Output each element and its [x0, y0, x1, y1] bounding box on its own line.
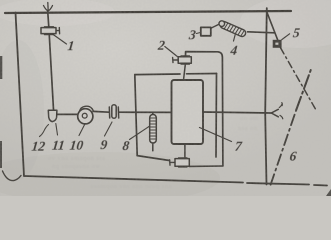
leader to label 5	[282, 34, 290, 40]
leader to label 3	[196, 32, 200, 33]
spray flicks	[279, 103, 283, 119]
wire: box3 to spring	[211, 24, 220, 28]
wire: spring to wall	[248, 32, 274, 33]
nozzle	[271, 109, 278, 117]
leader to label 10	[79, 125, 85, 136]
anchor hatch at top of supply pipe	[44, 3, 53, 12]
leader to label 7	[200, 128, 232, 142]
pulley box 5	[273, 40, 282, 48]
coupling 9	[109, 105, 118, 118]
spring 4	[219, 20, 247, 37]
leader to label 8	[130, 127, 150, 140]
wire: chamber bottom stub	[184, 144, 186, 158]
guy line from box 5	[281, 48, 317, 110]
right wall post	[265, 8, 267, 184]
callout labels	[30, 26, 311, 164]
wire: main pipe dropper-to-pump	[57, 113, 78, 115]
inner chamber 7	[172, 80, 204, 144]
wire: drain to loop	[189, 165, 223, 167]
sensor box 3	[201, 27, 211, 35]
scan artifact bottom right	[326, 189, 331, 196]
leader to label 1	[54, 35, 67, 44]
wire: recirculation loop	[186, 52, 223, 166]
dropper 11	[48, 110, 57, 121]
left wall	[16, 13, 25, 177]
stray pen hook bottom-left	[3, 171, 22, 181]
leader to label 11	[56, 124, 58, 136]
wire: main pipe tank-to-nozzle	[203, 112, 271, 113]
pole 6	[271, 110, 297, 185]
wire: supply pipe upper	[48, 11, 49, 27]
leader to label 4	[234, 34, 236, 42]
wire: diagonal brace to box5	[267, 12, 278, 40]
floor line	[24, 176, 327, 186]
wire: supply pipe lower	[49, 36, 53, 110]
wire: main pipe pump-to-coupling	[93, 110, 109, 113]
wire: main pipe coupling-to-tank	[119, 111, 172, 113]
drain valve	[170, 158, 190, 167]
leader to label 12	[40, 125, 49, 137]
outer tank box	[135, 75, 137, 156]
valve 2	[173, 56, 192, 64]
leader to label 2	[165, 47, 178, 57]
heater coil 8	[150, 112, 157, 151]
leader to label 9	[105, 122, 113, 136]
scan artifacts left edge	[0, 56, 2, 79]
valve 1	[41, 27, 60, 35]
top ceiling line	[5, 11, 291, 13]
ghost print bleed-through	[48, 115, 259, 190]
pump 10	[78, 106, 93, 124]
wire: valve2 down into chamber	[184, 64, 186, 81]
